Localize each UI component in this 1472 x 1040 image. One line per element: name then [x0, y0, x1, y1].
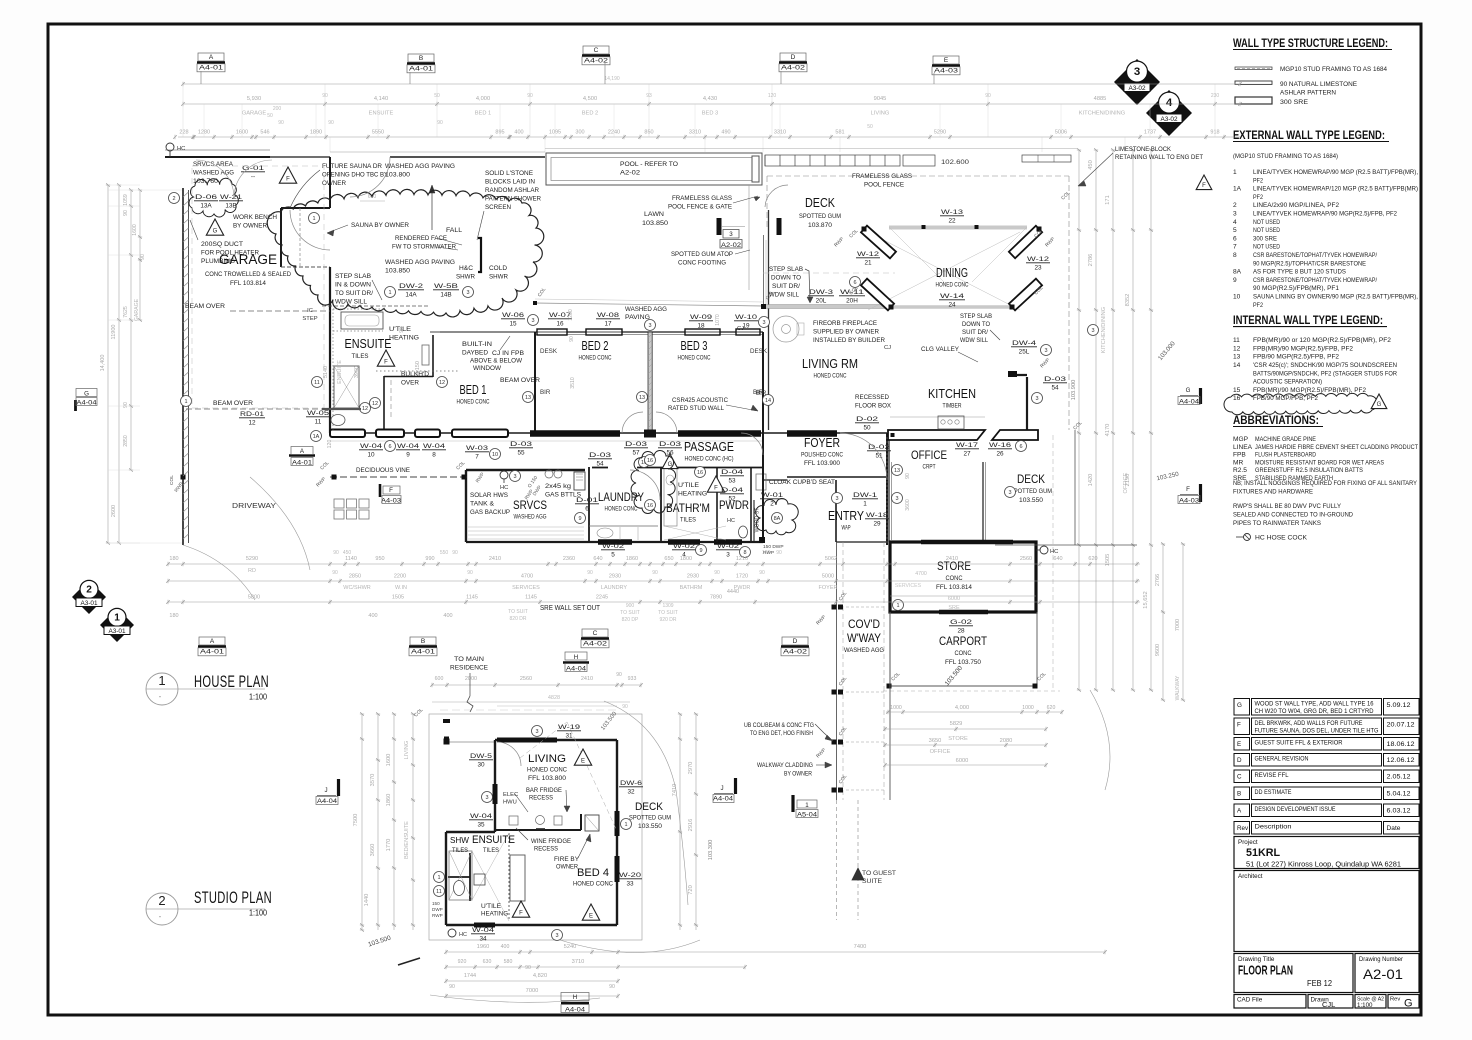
svg-text:FFL 103.800: FFL 103.800: [528, 775, 567, 782]
svg-text:FOR POOL HEATER: FOR POOL HEATER: [201, 250, 259, 257]
svg-text:90: 90: [449, 984, 455, 990]
svg-text:640: 640: [593, 556, 602, 562]
svg-text:F: F: [519, 911, 523, 917]
svg-text:28: 28: [957, 628, 965, 635]
svg-text:920 DR: 920 DR: [660, 617, 677, 623]
svg-text:GUEST SUITE FFL & EXTERIOR: GUEST SUITE FFL & EXTERIOR: [1255, 740, 1343, 747]
svg-text:90: 90: [328, 120, 334, 126]
svg-text:15,652: 15,652: [1143, 591, 1149, 608]
svg-text:DESK: DESK: [750, 348, 768, 355]
svg-text:W-08: W-08: [597, 312, 620, 319]
svg-text:2410: 2410: [489, 556, 501, 562]
svg-text:3: 3: [513, 474, 516, 480]
svg-text:14A: 14A: [405, 292, 417, 299]
svg-text:DOWN TO: DOWN TO: [771, 275, 801, 282]
svg-text:A2-02: A2-02: [620, 170, 640, 177]
svg-text:W-02: W-02: [717, 543, 740, 550]
svg-text:FRAMELESS GLASS: FRAMELESS GLASS: [852, 173, 912, 180]
svg-text:18.06.12: 18.06.12: [1387, 741, 1416, 748]
svg-text:3: 3: [485, 795, 488, 801]
svg-text:RANDOM ASHLAR: RANDOM ASHLAR: [485, 187, 539, 194]
svg-text:3510: 3510: [570, 377, 576, 389]
svg-text:POOL FENCE: POOL FENCE: [864, 182, 904, 189]
svg-text:11: 11: [1233, 337, 1240, 344]
svg-text:D-06: D-06: [195, 194, 218, 201]
svg-text:CONC TROWELLED & SEALED: CONC TROWELLED & SEALED: [205, 271, 291, 278]
svg-text:820 DR: 820 DR: [510, 616, 527, 622]
svg-text:HC: HC: [500, 485, 508, 491]
svg-text:8352: 8352: [1125, 294, 1131, 307]
svg-text:90: 90: [140, 254, 146, 260]
svg-text:OVER: OVER: [401, 380, 419, 387]
svg-text:W-12: W-12: [1027, 256, 1050, 263]
svg-text:3660: 3660: [370, 844, 376, 857]
svg-text:14B: 14B: [440, 292, 451, 299]
svg-text:3: 3: [835, 496, 838, 502]
svg-text:103.900: 103.900: [1071, 380, 1077, 401]
svg-text:90: 90: [616, 672, 622, 678]
svg-text:35: 35: [477, 822, 485, 829]
svg-text:2080: 2080: [1000, 738, 1013, 744]
svg-text:DESK: DESK: [540, 348, 558, 355]
svg-text:55: 55: [517, 450, 525, 457]
svg-text:16: 16: [697, 470, 703, 476]
svg-text:BED 1: BED 1: [460, 383, 487, 397]
svg-text:7000: 7000: [526, 988, 539, 994]
svg-text:TILES: TILES: [352, 353, 369, 360]
svg-text:4,150: 4,150: [415, 361, 421, 375]
svg-text:Project: Project: [1238, 839, 1258, 846]
svg-text:FALL: FALL: [446, 227, 462, 234]
svg-text:2x45 kg: 2x45 kg: [545, 483, 572, 490]
svg-text:34: 34: [479, 936, 487, 943]
svg-text:4170: 4170: [1105, 424, 1111, 437]
svg-text:FUTURE SAUNA, DOS DEL, UNDER T: FUTURE SAUNA, DOS DEL, UNDER TILE HTG: [1255, 728, 1379, 735]
svg-text:WAP: WAP: [842, 525, 851, 532]
svg-text:WASHED AGG PAVING: WASHED AGG PAVING: [385, 163, 455, 170]
svg-text:7: 7: [475, 454, 479, 461]
svg-text:1:100: 1:100: [249, 692, 267, 702]
svg-text:TILES: TILES: [680, 517, 696, 524]
svg-text:1720: 1720: [736, 574, 748, 580]
svg-text:9: 9: [578, 516, 581, 522]
svg-text:DRIVEWAY: DRIVEWAY: [232, 503, 276, 510]
svg-text:ACOUSTIC SEPARATION): ACOUSTIC SEPARATION): [1253, 379, 1322, 386]
svg-text:90: 90: [437, 120, 443, 126]
svg-text:WASHED AGG: WASHED AGG: [514, 514, 547, 521]
svg-text:H: H: [573, 994, 577, 1001]
svg-text:NB; INSTALL NOGGINGS REQUIRED: NB; INSTALL NOGGINGS REQUIRED FOR FIXING…: [1233, 480, 1418, 487]
svg-text:620: 620: [1088, 556, 1097, 562]
svg-text:ASHLAR PATTERN: ASHLAR PATTERN: [1280, 90, 1336, 97]
svg-text:IC: IC: [307, 308, 313, 314]
svg-text:FIXTURES AND HARDWARE: FIXTURES AND HARDWARE: [1233, 489, 1314, 496]
svg-text:FLOOR BOX: FLOOR BOX: [855, 403, 892, 410]
svg-text:13: 13: [525, 395, 531, 401]
svg-text:WC/SHWR: WC/SHWR: [343, 585, 371, 591]
svg-text:4828: 4828: [548, 695, 560, 701]
svg-text:90: 90: [587, 570, 593, 576]
svg-text:OPENING DHO TBC BY: OPENING DHO TBC BY: [322, 172, 389, 179]
svg-text:7500: 7500: [353, 814, 359, 827]
svg-text:UB COL/BEAM & CONC FTG: UB COL/BEAM & CONC FTG: [744, 722, 814, 729]
svg-text:90: 90: [332, 570, 338, 576]
svg-text:2: 2: [770, 501, 774, 508]
svg-text:1600: 1600: [386, 754, 392, 767]
svg-text:HC HOSE COCK: HC HOSE COCK: [1255, 535, 1308, 542]
svg-text:5.09.12: 5.09.12: [1387, 702, 1412, 709]
svg-text:W-19: W-19: [558, 724, 581, 731]
svg-text:4,820: 4,820: [533, 973, 547, 979]
svg-text:PF2: PF2: [1253, 194, 1263, 201]
svg-text:20.07.12: 20.07.12: [1387, 722, 1416, 729]
svg-text:RWP'S SHALL BE 80 DWV PVC FULL: RWP'S SHALL BE 80 DWV PVC FULLY: [1233, 503, 1342, 510]
svg-text:CSR BARESTONE/TOPHAT/TYVEK HOM: CSR BARESTONE/TOPHAT/TYVEK HOMEWRAP/: [1253, 277, 1377, 284]
svg-text:MGP10 STUD FRAMING TO AS 1684: MGP10 STUD FRAMING TO AS 1684: [1280, 66, 1387, 73]
svg-text:16: 16: [647, 503, 653, 509]
svg-text:GARAGE: GARAGE: [242, 111, 267, 117]
svg-text:11: 11: [436, 889, 442, 895]
svg-text:90: 90: [123, 210, 129, 216]
svg-text:W-06: W-06: [502, 312, 525, 319]
svg-text:29: 29: [873, 521, 881, 528]
svg-text:2.05.12: 2.05.12: [1387, 774, 1412, 781]
svg-text:21: 21: [864, 260, 872, 267]
svg-text:4700: 4700: [915, 571, 927, 577]
svg-text:FLUSH PLASTERBOARD: FLUSH PLASTERBOARD: [1255, 452, 1316, 459]
svg-text:FPB(MR)/90 MGP(R2.5)/FPB, PF2: FPB(MR)/90 MGP(R2.5)/FPB, PF2: [1253, 345, 1353, 352]
svg-text:90: 90: [333, 550, 339, 556]
svg-text:2560: 2560: [520, 676, 532, 682]
svg-text:BAR FRIDGE: BAR FRIDGE: [526, 787, 562, 794]
svg-text:WASHED AGG PAVING: WASHED AGG PAVING: [385, 259, 455, 266]
svg-text:A3-01: A3-01: [108, 628, 125, 635]
svg-text:WALKWAY: WALKWAY: [1175, 675, 1181, 700]
svg-text:DD ESTIMATE: DD ESTIMATE: [1255, 789, 1292, 796]
svg-text:1800: 1800: [680, 556, 692, 562]
svg-text:11: 11: [315, 419, 322, 426]
svg-text:CARPORT: CARPORT: [939, 634, 988, 648]
svg-text:W-09: W-09: [690, 314, 713, 321]
svg-text:180: 180: [169, 613, 178, 619]
svg-text:BEAM OVER: BEAM OVER: [500, 377, 540, 384]
svg-text:DECIDUOUS VINE: DECIDUOUS VINE: [356, 467, 410, 474]
svg-text:SPOTTED GUM: SPOTTED GUM: [1010, 488, 1052, 495]
svg-text:6: 6: [853, 280, 856, 286]
svg-text:F: F: [389, 487, 393, 494]
svg-text:103.550: 103.550: [1019, 497, 1044, 504]
svg-text:3: 3: [1008, 490, 1011, 496]
svg-text:CJ: CJ: [737, 326, 744, 332]
svg-text:STORE: STORE: [948, 736, 968, 742]
svg-text:3: 3: [531, 318, 534, 324]
svg-text:NOT USED: NOT USED: [1253, 227, 1280, 234]
svg-text:18: 18: [697, 323, 705, 330]
svg-text:W-20: W-20: [619, 872, 642, 879]
svg-text:90: 90: [123, 402, 129, 408]
svg-text:FOYER: FOYER: [804, 436, 840, 450]
svg-text:300 SRE: 300 SRE: [1253, 235, 1278, 242]
svg-text:2245: 2245: [596, 595, 608, 601]
svg-text:LINEA/TYVEK HOMEWRAP/120 MGP (: LINEA/TYVEK HOMEWRAP/120 MGP (R2.5 BATT)…: [1253, 186, 1418, 193]
svg-text:F: F: [384, 360, 388, 366]
svg-text:950: 950: [375, 556, 384, 562]
svg-text:15: 15: [509, 321, 517, 328]
svg-text:6000: 6000: [956, 758, 969, 764]
svg-text:W-04: W-04: [423, 443, 446, 450]
svg-text:SHW: SHW: [450, 836, 469, 845]
svg-text:8A: 8A: [1233, 269, 1242, 276]
svg-text:TO MAIN: TO MAIN: [454, 656, 484, 663]
svg-text:W-05: W-05: [307, 410, 330, 417]
svg-text:228: 228: [179, 130, 188, 136]
svg-text:Date: Date: [1387, 825, 1402, 832]
svg-text:BED 4: BED 4: [577, 867, 609, 879]
svg-text:SRE: SRE: [948, 605, 960, 611]
svg-text:103.800: 103.800: [385, 172, 410, 179]
svg-text:U'TILE: U'TILE: [678, 482, 699, 489]
svg-text:BUILT-IN: BUILT-IN: [462, 341, 492, 348]
svg-text:90: 90: [569, 336, 575, 342]
svg-text:W-01: W-01: [761, 492, 784, 499]
svg-text:J: J: [720, 785, 723, 792]
svg-text:10: 10: [1233, 294, 1241, 301]
svg-text:150: 150: [432, 901, 440, 906]
svg-text:H&C: H&C: [459, 265, 473, 272]
svg-text:CONC FOOTING: CONC FOOTING: [678, 260, 726, 267]
svg-text:Architect: Architect: [1238, 873, 1263, 880]
svg-text:5.04.12: 5.04.12: [1387, 791, 1412, 798]
svg-text:5800: 5800: [248, 595, 260, 601]
svg-text:W-02: W-02: [602, 543, 625, 550]
svg-text:RECESS: RECESS: [529, 795, 553, 802]
svg-text:FOYER: FOYER: [819, 585, 838, 591]
svg-text:12: 12: [1233, 345, 1241, 352]
svg-text:SUITE: SUITE: [862, 878, 882, 885]
svg-text:SPOTTED GUM: SPOTTED GUM: [629, 815, 671, 822]
svg-text:KITCHEN/DINING: KITCHEN/DINING: [1079, 111, 1125, 117]
svg-text:WOOD ST WALL TYPE, ADD WALL TY: WOOD ST WALL TYPE, ADD WALL TYPE 16: [1255, 701, 1374, 708]
svg-text:3960: 3960: [354, 366, 360, 378]
svg-text:53: 53: [728, 478, 736, 485]
svg-text:2200: 2200: [394, 574, 406, 580]
svg-text:SOLID L'STONE: SOLID L'STONE: [485, 170, 533, 177]
svg-text:RATED STUD WALL: RATED STUD WALL: [668, 405, 724, 412]
svg-text:PF2: PF2: [1253, 177, 1263, 184]
svg-text:CLOAK CUPB’D SEAT: CLOAK CUPB’D SEAT: [769, 479, 835, 486]
svg-text:LAUNDRY: LAUNDRY: [598, 490, 644, 504]
svg-text:6: 6: [1019, 444, 1022, 450]
svg-text:CJ IN FPB: CJ IN FPB: [492, 350, 524, 357]
svg-text:90: 90: [609, 984, 615, 990]
svg-text:SRVCS: SRVCS: [513, 498, 547, 512]
svg-text:CJ: CJ: [884, 345, 891, 351]
svg-text:DW-3: DW-3: [809, 289, 834, 296]
svg-text:BY OWNER: BY OWNER: [784, 771, 812, 778]
svg-text:ENSUITE: ENSUITE: [472, 834, 515, 846]
svg-text:450: 450: [1088, 160, 1094, 170]
svg-text:2970: 2970: [688, 762, 694, 775]
svg-text:300: 300: [575, 130, 584, 136]
svg-text:90: 90: [399, 327, 405, 333]
svg-text:2: 2: [86, 584, 92, 595]
svg-text:1: 1: [1233, 169, 1237, 176]
svg-text:1440: 1440: [364, 894, 370, 907]
svg-text:11900: 11900: [111, 325, 117, 340]
svg-text:FIREORB FIREPLACE: FIREORB FIREPLACE: [813, 320, 877, 327]
svg-text:Drawing Title: Drawing Title: [1238, 956, 1275, 963]
svg-text:1140: 1140: [345, 556, 357, 562]
svg-text:DECK: DECK: [635, 801, 664, 813]
svg-text:90: 90: [622, 704, 628, 710]
svg-text:90: 90: [525, 965, 531, 971]
svg-text:WDW SILL: WDW SILL: [769, 292, 799, 299]
svg-text:HONED CONC: HONED CONC: [936, 282, 969, 289]
svg-text:90: 90: [278, 120, 284, 126]
svg-text:13: 13: [894, 468, 900, 474]
svg-text:RETAINING WALL TO ENG DET: RETAINING WALL TO ENG DET: [1115, 154, 1203, 161]
svg-text:50: 50: [863, 425, 871, 432]
svg-text:1200: 1200: [568, 309, 574, 321]
svg-text:A4-01: A4-01: [411, 649, 436, 656]
svg-text:1A: 1A: [313, 434, 320, 440]
svg-text:KITCHEN: KITCHEN: [928, 387, 976, 401]
svg-text:3: 3: [1044, 348, 1047, 354]
svg-text:1070: 1070: [715, 314, 721, 326]
svg-text:D: D: [791, 54, 796, 61]
svg-text:CSR BARESTONE/TOPHAT/TYVEK HOM: CSR BARESTONE/TOPHAT/TYVEK HOMEWRAP/: [1253, 252, 1377, 259]
svg-text:102.600: 102.600: [941, 159, 970, 166]
svg-text:3: 3: [729, 231, 733, 238]
svg-text:TO SUIT DR/: TO SUIT DR/: [335, 290, 373, 297]
svg-text:2560: 2560: [1020, 556, 1032, 562]
svg-text:A4-02: A4-02: [583, 641, 608, 648]
svg-text:4885: 4885: [1094, 96, 1107, 102]
svg-text:1145: 1145: [466, 595, 478, 601]
svg-text:LINEA/TYVEK HOMEWRAP/90 MGP (R: LINEA/TYVEK HOMEWRAP/90 MGP (R2.5 BATT)/…: [1253, 169, 1418, 176]
svg-text:103.550: 103.550: [638, 823, 663, 830]
svg-text:2600: 2600: [111, 505, 117, 517]
svg-text:7890: 7890: [710, 595, 722, 601]
svg-text:8: 8: [1233, 252, 1237, 259]
svg-text:4: 4: [1233, 219, 1237, 226]
svg-text:12: 12: [248, 420, 256, 427]
svg-text:'CSR 425(c)'; SNDCHK/90 MGP/75: 'CSR 425(c)'; SNDCHK/90 MGP/75 SOUNDSCRE…: [1253, 362, 1397, 369]
svg-text:546: 546: [260, 130, 269, 136]
svg-text:SCREEN: SCREEN: [485, 204, 511, 211]
svg-text:5829: 5829: [950, 721, 963, 727]
svg-text:2850: 2850: [123, 435, 129, 447]
svg-text:B: B: [1237, 791, 1241, 798]
svg-text:A2-01: A2-01: [1363, 966, 1403, 982]
svg-text:14: 14: [1233, 362, 1241, 369]
svg-text:SEALED AND CONNECTED TO IN-GRO: SEALED AND CONNECTED TO IN-GROUND: [1233, 512, 1353, 519]
svg-text:E: E: [1237, 741, 1241, 748]
svg-text:1: 1: [437, 875, 440, 881]
svg-text:400: 400: [501, 944, 510, 950]
svg-text:A4-01: A4-01: [200, 649, 225, 656]
svg-text:16: 16: [647, 458, 653, 464]
svg-text:BIR: BIR: [756, 390, 767, 397]
svg-text:HONED CONC: HONED CONC: [579, 355, 612, 362]
svg-text:103.300: 103.300: [708, 840, 714, 861]
svg-text:90: 90: [714, 570, 720, 576]
svg-text:BED 1: BED 1: [475, 111, 491, 117]
svg-text:DAYBED: DAYBED: [462, 350, 488, 357]
svg-text:1744: 1744: [464, 973, 476, 979]
svg-text:LIVING: LIVING: [871, 111, 890, 117]
svg-text:WINE FRIDGE: WINE FRIDGE: [531, 838, 571, 845]
svg-text:STEP: STEP: [302, 316, 317, 322]
svg-text:2: 2: [172, 196, 175, 202]
svg-text:3: 3: [535, 729, 538, 735]
svg-text:TO SUIT: TO SUIT: [658, 610, 678, 616]
svg-text:2: 2: [158, 893, 165, 908]
svg-text:CONC: CONC: [955, 650, 972, 657]
svg-text:33: 33: [626, 881, 634, 888]
svg-text:CJL: CJL: [1322, 1000, 1335, 1009]
svg-text:SHWR: SHWR: [456, 274, 475, 281]
svg-text:D: D: [1237, 757, 1242, 764]
svg-text:300 SRE: 300 SRE: [1280, 99, 1309, 106]
svg-text:51 (Lot 227) Kinross Loop, Qui: 51 (Lot 227) Kinross Loop, Quindalup WA …: [1246, 862, 1401, 869]
svg-text:620: 620: [1047, 705, 1056, 711]
svg-text:16: 16: [556, 321, 564, 328]
svg-text:--: --: [251, 174, 255, 181]
svg-text:5240: 5240: [564, 944, 577, 950]
svg-text:COLD: COLD: [489, 265, 507, 272]
svg-text:COV'D: COV'D: [848, 617, 880, 631]
svg-text:3: 3: [466, 290, 469, 296]
svg-text:4440: 4440: [727, 589, 739, 595]
svg-text:2766: 2766: [1155, 574, 1161, 586]
svg-text:9: 9: [699, 548, 702, 554]
svg-text:TANK &: TANK &: [470, 501, 495, 508]
svg-text:2850: 2850: [349, 574, 361, 580]
svg-text:3570: 3570: [370, 774, 376, 787]
svg-text:50: 50: [867, 124, 873, 130]
svg-text:1000: 1000: [890, 705, 902, 711]
svg-text:FEB 12: FEB 12: [1307, 978, 1332, 988]
svg-text:D-03: D-03: [589, 452, 612, 459]
svg-text:INSTALLED BY BUILDER: INSTALLED BY BUILDER: [813, 337, 885, 344]
svg-text:31: 31: [565, 733, 573, 740]
svg-text:SUIT DR/: SUIT DR/: [772, 283, 800, 290]
svg-text:D-04: D-04: [721, 487, 744, 494]
svg-text:HONED CONC (HC): HONED CONC (HC): [685, 456, 734, 463]
svg-text:10: 10: [367, 452, 375, 459]
svg-text:200SQ DUCT: 200SQ DUCT: [201, 241, 243, 248]
svg-text:W-14: W-14: [940, 293, 965, 300]
svg-text:120: 120: [762, 550, 771, 556]
svg-text:400: 400: [514, 130, 523, 136]
svg-text:SUIT DR/: SUIT DR/: [962, 329, 988, 336]
svg-text:12: 12: [439, 380, 445, 386]
svg-text:LINEA/2x90 MGP/LINEA, PF2: LINEA/2x90 MGP/LINEA, PF2: [1253, 202, 1339, 209]
svg-text:26: 26: [996, 451, 1004, 458]
svg-text:F: F: [714, 486, 718, 492]
svg-text:120: 120: [327, 440, 333, 449]
svg-text:9600: 9600: [1155, 644, 1161, 656]
svg-text:HONED CONC: HONED CONC: [527, 767, 567, 774]
svg-text:G: G: [1237, 702, 1242, 709]
svg-text:5000: 5000: [822, 574, 834, 580]
svg-text:13A: 13A: [200, 203, 212, 210]
svg-text:20L: 20L: [816, 298, 827, 305]
svg-text:FW TO STORMWATER: FW TO STORMWATER: [392, 244, 456, 251]
svg-text:LAUNDRY: LAUNDRY: [601, 585, 628, 591]
svg-text:DW-5: DW-5: [470, 753, 493, 760]
